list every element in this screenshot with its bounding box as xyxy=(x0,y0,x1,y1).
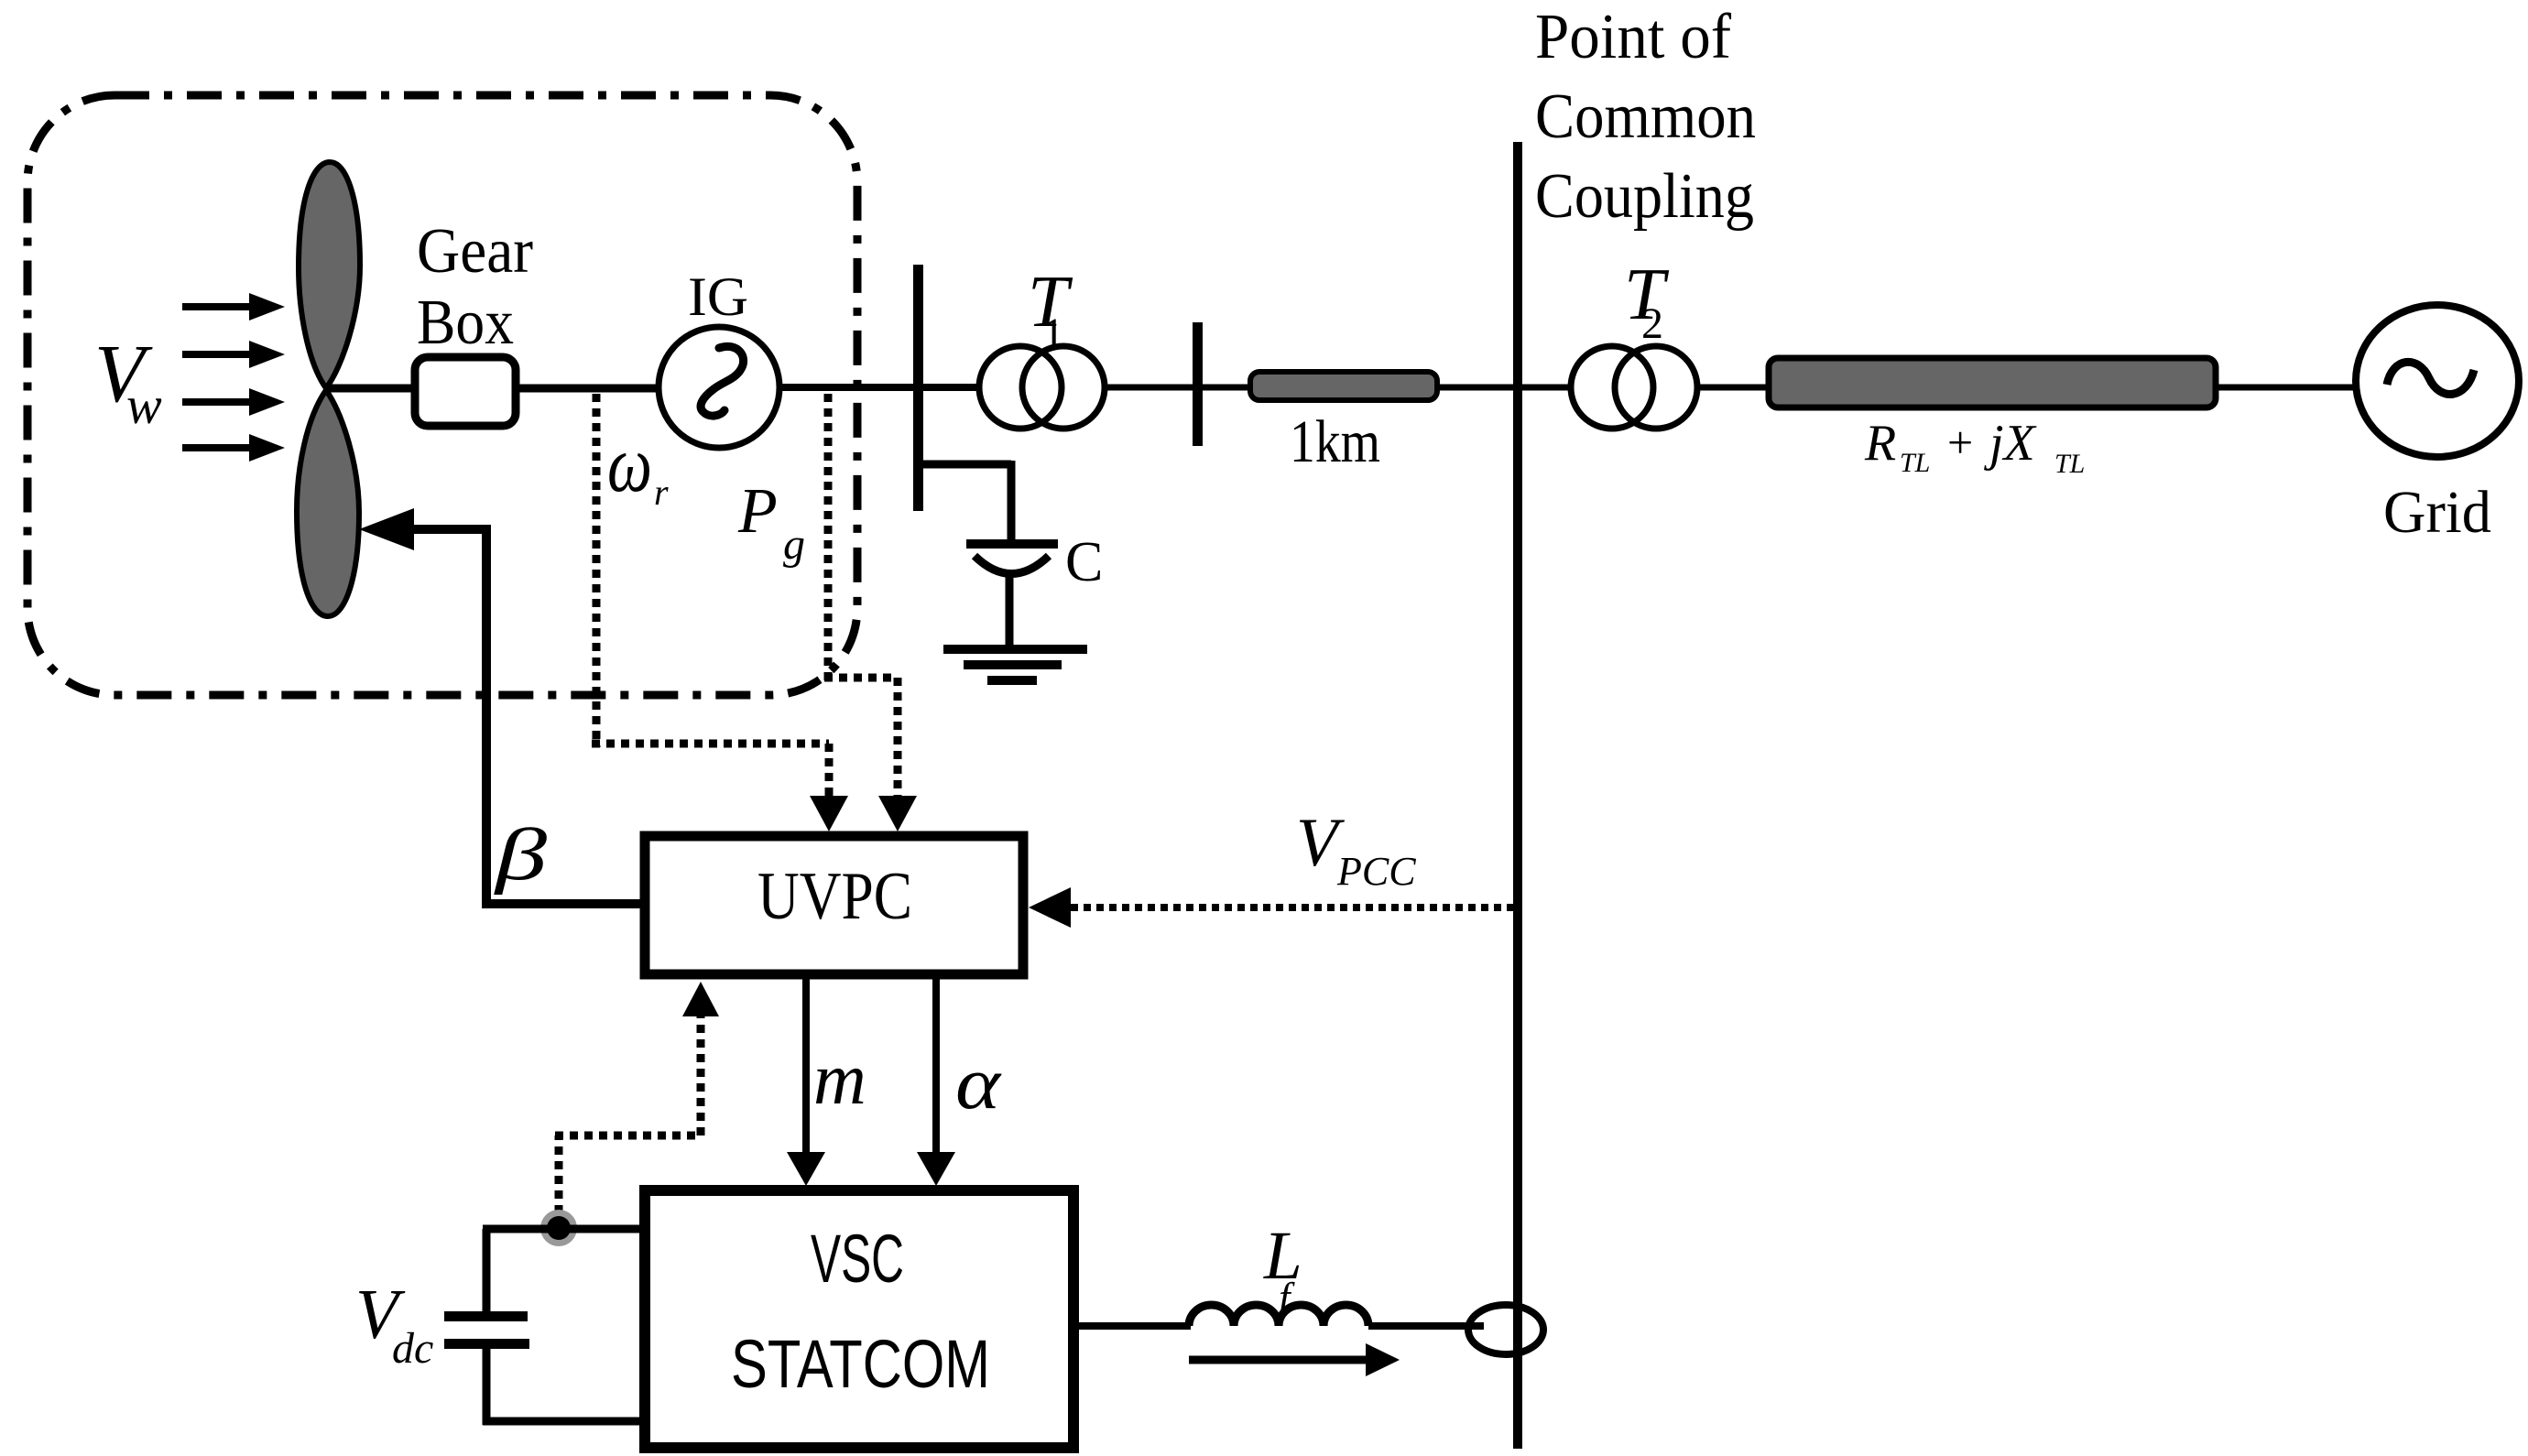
label Pg xyxy=(737,476,805,569)
svg-text:Coupling: Coupling xyxy=(1535,161,1754,232)
wire inductor to PCC xyxy=(1368,1322,1484,1330)
label Point of Common Coupling xyxy=(1535,2,1756,232)
induction generator IG xyxy=(659,327,779,448)
wind arrow 3 xyxy=(182,388,285,416)
shaft wire hub to gear box xyxy=(328,385,417,393)
svg-text:Box: Box xyxy=(417,288,514,358)
transmission line RTL+jXTL xyxy=(1769,358,2216,407)
1km line section xyxy=(1250,372,1437,400)
svg-text:g: g xyxy=(783,520,805,569)
svg-text:β: β xyxy=(493,815,547,896)
svg-text:Common: Common xyxy=(1535,81,1756,152)
label Lf xyxy=(1263,1218,1302,1320)
svg-text:α: α xyxy=(955,1041,1002,1125)
wire T2 to transmission line xyxy=(1699,385,1766,391)
svg-text:STATCOM: STATCOM xyxy=(731,1326,990,1402)
label wr xyxy=(607,420,669,513)
svg-text:R: R xyxy=(1864,415,1896,472)
wind arrow 2 xyxy=(182,341,285,368)
label RTL + jXTL xyxy=(1864,415,2085,479)
PCC connection ellipse xyxy=(1468,1305,1543,1354)
svg-text:TL: TL xyxy=(1900,448,1930,478)
wire transmission line to Grid xyxy=(2218,385,2354,391)
svg-text:Grid: Grid xyxy=(2383,479,2491,546)
alpha control arrow xyxy=(917,979,955,1186)
Pg feedback dotted line xyxy=(824,394,917,831)
label T2 xyxy=(1624,255,1670,348)
svg-text:Gear: Gear xyxy=(417,216,533,287)
label VPCC xyxy=(1296,805,1416,894)
beta pitch wire xyxy=(359,508,645,908)
turbine blade bottom xyxy=(297,390,359,616)
busbar 1 xyxy=(913,265,923,511)
inductor Lf xyxy=(1189,1305,1368,1326)
VSC STATCOM box xyxy=(645,1190,1073,1448)
transformer T2 xyxy=(1571,346,1697,429)
wire T1 to line section xyxy=(1106,385,1250,391)
Vdc dotted feedback xyxy=(555,982,719,1213)
svg-text:Point of: Point of xyxy=(1535,2,1732,72)
svg-text:TL: TL xyxy=(2054,449,2085,479)
svg-text:m: m xyxy=(813,1039,866,1120)
svg-text:1: 1 xyxy=(1042,310,1064,358)
wire 1km to PCC xyxy=(1437,385,1518,391)
PCC bus line xyxy=(1513,142,1522,1449)
VPCC dotted arrow xyxy=(1029,887,1513,928)
UVPC controller box xyxy=(645,836,1023,974)
wire IG to T1 xyxy=(779,384,978,391)
transformer T1 xyxy=(979,346,1105,429)
m control arrow xyxy=(787,979,825,1186)
wr feedback dotted line xyxy=(592,394,848,831)
svg-text:ω: ω xyxy=(607,420,652,509)
capacitor C xyxy=(966,539,1058,647)
label Vdc xyxy=(355,1275,433,1373)
Lf filter wire xyxy=(1079,1322,1191,1330)
svg-text:r: r xyxy=(654,472,669,513)
turbine blade top xyxy=(299,162,360,388)
label VSC STATCOM xyxy=(731,1221,990,1402)
wire PCC to T2 xyxy=(1518,385,1570,391)
svg-text:IG: IG xyxy=(688,266,748,327)
svg-text:jX: jX xyxy=(1984,415,2038,472)
wind turbine system boundary (dash-dot rounded rectangle) xyxy=(27,95,857,695)
svg-text:C: C xyxy=(1065,531,1103,593)
label Vw (wind speed) xyxy=(94,329,162,435)
current direction arrow xyxy=(1189,1343,1400,1376)
svg-text:P: P xyxy=(737,476,778,547)
svg-text:dc: dc xyxy=(392,1324,433,1373)
gear box xyxy=(415,357,516,426)
svg-text:VSC: VSC xyxy=(811,1221,904,1297)
wind arrow 1 xyxy=(182,293,285,321)
svg-text:w: w xyxy=(126,375,162,435)
Vdc node xyxy=(540,1210,577,1246)
svg-text:1km: 1km xyxy=(1290,408,1380,475)
svg-text:+: + xyxy=(1947,417,1973,468)
wind arrow 4 xyxy=(182,434,285,462)
label Gear Box xyxy=(417,216,533,358)
svg-text:PCC: PCC xyxy=(1336,849,1416,894)
label T1 xyxy=(1028,262,1073,358)
capacitor branch wire xyxy=(919,461,1011,544)
Vdc capacitor loop wires xyxy=(444,1229,645,1425)
busbar tick 2 xyxy=(1193,322,1203,446)
ground xyxy=(943,645,1087,685)
shaft wire gear box to IG xyxy=(516,385,659,393)
svg-text:UVPC: UVPC xyxy=(757,859,912,934)
svg-text:2: 2 xyxy=(1641,299,1663,348)
Grid source xyxy=(2356,305,2519,457)
